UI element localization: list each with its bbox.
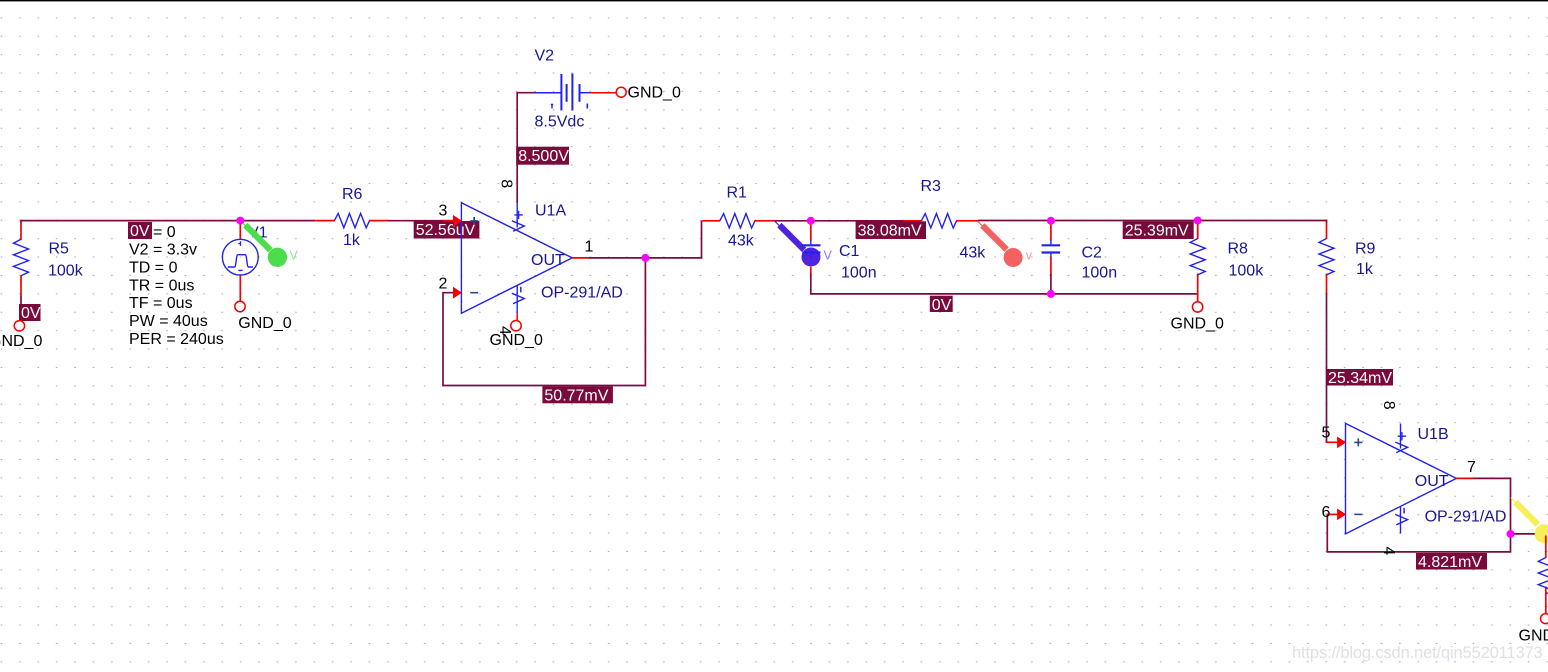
U1A pin3 input arrow bbox=[443, 220, 456, 222]
voltage probe salmon at C2 node bbox=[978, 222, 1007, 250]
resistor R5 bbox=[20, 222, 22, 240]
bias box 0V bottom rail bbox=[930, 296, 953, 312]
svg-text:R6: R6 bbox=[342, 186, 363, 203]
svg-text:3: 3 bbox=[439, 203, 448, 220]
wire R1 to C1 node bbox=[775, 220, 812, 222]
ground GND_0 under U1A bbox=[511, 321, 521, 331]
svg-text:7: 7 bbox=[1467, 459, 1476, 476]
U1B V+ power pin 8 bbox=[1400, 424, 1402, 449]
U1A V- power pin 4 bbox=[516, 286, 518, 314]
svg-text:1k: 1k bbox=[343, 232, 361, 249]
wire U1B out branch to R10 bbox=[1511, 534, 1546, 537]
svg-text:OP-291/AD: OP-291/AD bbox=[541, 285, 623, 302]
op-amp U1A bbox=[461, 203, 572, 314]
wire main top rail R5 to opamp bbox=[20, 220, 315, 222]
junction C2 bottom node bbox=[1047, 290, 1055, 298]
svg-text:1k: 1k bbox=[1356, 261, 1374, 278]
svg-text:100n: 100n bbox=[841, 265, 877, 282]
U1A pin2 input arrow bbox=[453, 287, 462, 299]
junction R8 node bbox=[1194, 217, 1202, 225]
svg-text:C2: C2 bbox=[1082, 245, 1103, 262]
wire up to R1 bbox=[701, 221, 703, 259]
resistor R10 right edge bbox=[1545, 536, 1547, 559]
svg-text:4.821mV: 4.821mV bbox=[1418, 554, 1482, 571]
ground GND_0 at V2 bbox=[616, 87, 626, 97]
wire R5 top corner bbox=[20, 220, 22, 223]
wire bottom 0V rail bbox=[810, 293, 1197, 295]
svg-text:100k: 100k bbox=[48, 263, 84, 280]
svg-text:TD = 0: TD = 0 bbox=[129, 260, 178, 277]
svg-text:TR = 0us: TR = 0us bbox=[129, 277, 194, 294]
bias box 38.08mV bbox=[856, 221, 926, 239]
capacitor C1 bbox=[810, 222, 812, 241]
svg-text:V: V bbox=[824, 249, 833, 263]
svg-text:R3: R3 bbox=[921, 178, 942, 195]
svg-text:100n: 100n bbox=[1082, 265, 1118, 282]
svg-text:GND_0: GND_0 bbox=[628, 85, 681, 102]
svg-text:38.08mV: 38.08mV bbox=[858, 223, 922, 240]
svg-text:https://blog.csdn.net/qin55201: https://blog.csdn.net/qin552011373 bbox=[1292, 644, 1543, 662]
wire U1A feedback bbox=[443, 258, 645, 386]
resistor R1 bbox=[702, 220, 721, 222]
svg-text:0V: 0V bbox=[130, 223, 150, 240]
junction U1A out node bbox=[641, 254, 649, 262]
voltage probe green at V1 node bbox=[241, 221, 271, 250]
svg-text:C1: C1 bbox=[839, 243, 860, 260]
resistor R8 bbox=[1197, 222, 1199, 240]
voltage probe yellow at U1B out bbox=[1511, 498, 1538, 525]
junction C1 node bbox=[807, 217, 815, 225]
wire R8 junction to R9 bbox=[1198, 220, 1328, 222]
wire R9 down to U1B pin5 bbox=[1326, 293, 1328, 443]
voltage probe blue at C1 node bbox=[775, 221, 804, 250]
bias box 25.39mV bbox=[1123, 221, 1194, 239]
bias box 52.56uV bbox=[414, 221, 480, 239]
voltage source V2 battery bbox=[536, 92, 562, 94]
svg-text:8.5Vdc: 8.5Vdc bbox=[535, 114, 585, 131]
bias box 8.500V bbox=[516, 147, 569, 165]
U1B pin6 lead and input arrow bbox=[1327, 513, 1340, 515]
svg-text:GND_0: GND_0 bbox=[1171, 316, 1224, 333]
U1A output pin lead bbox=[572, 257, 590, 259]
resistor R9 bbox=[1326, 222, 1328, 240]
svg-text:R9: R9 bbox=[1355, 241, 1376, 258]
svg-text:0V: 0V bbox=[932, 297, 952, 314]
bias box 4.821mV bbox=[1416, 553, 1487, 570]
svg-text:PW = 40us: PW = 40us bbox=[129, 313, 208, 330]
ground GND_0 under V1 bbox=[235, 301, 245, 311]
U1B output pin lead bbox=[1456, 477, 1474, 479]
wire opamp U1A output bbox=[589, 257, 703, 259]
svg-text:25.39mV: 25.39mV bbox=[1125, 223, 1189, 240]
wire C2 bottom bbox=[1050, 274, 1052, 295]
svg-text:25.34mV: 25.34mV bbox=[1328, 370, 1392, 387]
svg-text:1: 1 bbox=[585, 239, 594, 256]
svg-text:PER = 240us: PER = 240us bbox=[129, 331, 224, 348]
top border bbox=[0, 0, 1548, 1]
wire R3 to C2 node to R8 junction bbox=[978, 220, 1198, 222]
svg-text:8.500V: 8.500V bbox=[518, 148, 569, 165]
svg-text:0V: 0V bbox=[21, 305, 41, 322]
op-amp U1B bbox=[1346, 423, 1457, 534]
svg-text:R1: R1 bbox=[727, 185, 748, 202]
svg-text:R5: R5 bbox=[49, 241, 70, 258]
svg-text:OP-291/AD: OP-291/AD bbox=[1425, 509, 1507, 526]
bias box 50.77mV bbox=[542, 386, 613, 403]
U1B pin5 lead and input arrow bbox=[1326, 441, 1340, 443]
svg-text:43k: 43k bbox=[728, 233, 755, 250]
svg-text:4: 4 bbox=[1380, 547, 1397, 556]
voltage source V1 pulse bbox=[239, 222, 241, 240]
junction C2 top node bbox=[1047, 217, 1055, 225]
ground GND_0 under R5 bbox=[14, 321, 24, 331]
svg-text:GND_0: GND_0 bbox=[0, 333, 42, 350]
U1A V+ power pin 8 bbox=[516, 202, 518, 227]
svg-text:8: 8 bbox=[1380, 401, 1397, 410]
svg-text:OUT: OUT bbox=[531, 252, 565, 269]
svg-text:6: 6 bbox=[1322, 504, 1331, 521]
svg-text:OUT: OUT bbox=[1415, 473, 1449, 490]
svg-text:5: 5 bbox=[1322, 425, 1331, 442]
wire C1 node to R3 bbox=[811, 220, 904, 222]
svg-text:U1A: U1A bbox=[535, 203, 566, 220]
svg-text:v: v bbox=[1026, 249, 1033, 263]
svg-text:50.77mV: 50.77mV bbox=[544, 388, 608, 405]
ground GND_0 under R8 bbox=[1192, 302, 1202, 312]
junction U1B out node bbox=[1507, 530, 1515, 538]
svg-text:52.56uV: 52.56uV bbox=[416, 222, 476, 239]
resistor R3 bbox=[903, 220, 922, 222]
ground GND under R10 bbox=[1541, 614, 1548, 624]
svg-text:V: V bbox=[290, 249, 299, 263]
svg-text:100k: 100k bbox=[1229, 263, 1265, 280]
svg-text:R8: R8 bbox=[1228, 241, 1249, 258]
wire R5 bottom to 0V bbox=[20, 296, 22, 306]
bias box 0V over V1 param bbox=[128, 222, 152, 239]
wire V2 to opamp pin8 bbox=[517, 93, 536, 203]
svg-text:43k: 43k bbox=[960, 245, 987, 262]
wire C1 bottom bbox=[810, 274, 812, 295]
resistor R6 bbox=[315, 220, 335, 222]
bias box 25.34mV bbox=[1326, 369, 1393, 386]
junction V1 node bbox=[236, 217, 244, 225]
bias box 0V at R5 bbox=[19, 304, 41, 321]
svg-text:2: 2 bbox=[439, 276, 448, 293]
svg-text:4: 4 bbox=[496, 326, 513, 335]
svg-text:V2 = 3.3v: V2 = 3.3v bbox=[129, 242, 197, 259]
svg-text:TF = 0us: TF = 0us bbox=[129, 295, 193, 312]
wire U1B output down and feedback bbox=[1327, 478, 1510, 552]
wire R9 top corner bbox=[1326, 220, 1328, 223]
svg-text:V2: V2 bbox=[535, 48, 555, 65]
U1B V- power pin 4 bbox=[1400, 507, 1402, 534]
svg-text:U1B: U1B bbox=[1418, 426, 1449, 443]
svg-text:GND_0: GND_0 bbox=[1519, 628, 1548, 645]
capacitor C2 bbox=[1050, 222, 1052, 241]
svg-text:8: 8 bbox=[498, 179, 515, 188]
svg-text:GND_0: GND_0 bbox=[238, 315, 291, 332]
